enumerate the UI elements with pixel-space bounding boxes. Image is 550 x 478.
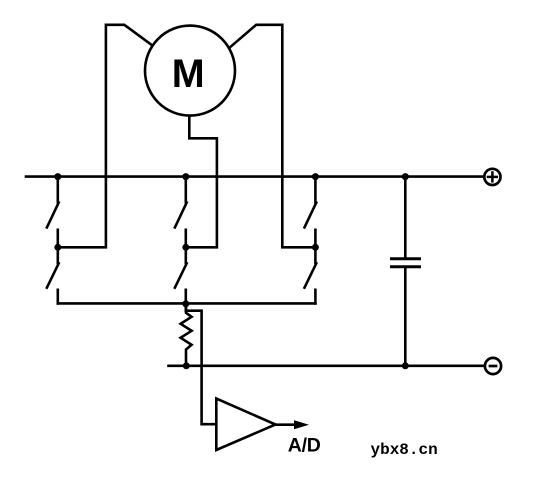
svg-text:A/D: A/D	[288, 434, 321, 456]
svg-text:M: M	[172, 52, 205, 96]
svg-text:ybx8.cn: ybx8.cn	[371, 441, 438, 459]
